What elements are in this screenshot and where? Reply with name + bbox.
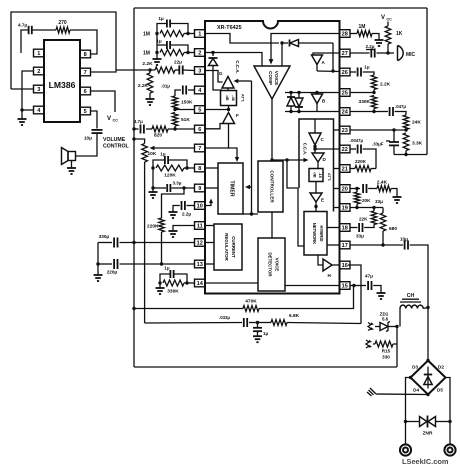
svg-text:D2: D2: [438, 365, 444, 370]
svg-text:COMP: COMP: [268, 71, 273, 85]
svg-text:15: 15: [342, 284, 348, 290]
wire pin14 internal: [205, 282, 258, 284]
svg-text:CURRENT: CURRENT: [231, 236, 236, 258]
svg-text:V: V: [107, 115, 112, 122]
wire pin17 internal: [327, 244, 340, 246]
capacitor 1u (pin1): [157, 16, 188, 34]
pin 14 (XR): [195, 279, 206, 287]
diode CR2 (internal): [209, 58, 223, 90]
pin 18 (XR): [340, 224, 351, 232]
op-amp D: [312, 153, 327, 162]
wire pin5 to coupling cap: [90, 111, 97, 129]
svg-text:MIC: MIC: [406, 52, 416, 58]
svg-text:24: 24: [342, 110, 349, 116]
svg-text:XR-T6425: XR-T6425: [217, 25, 242, 31]
wire pin15 row: [350, 284, 366, 287]
label D3: [412, 365, 418, 370]
svg-text:.0047μ: .0047μ: [350, 138, 363, 143]
op-amp B: [312, 91, 327, 112]
pin 20 (XR): [340, 185, 351, 193]
svg-text:5: 5: [84, 109, 87, 115]
wire cca to amp D: [270, 158, 308, 162]
pin 6 (LM386): [80, 87, 91, 95]
power Vcc (mic): [381, 15, 392, 26]
svg-text:5.6: 5.6: [382, 317, 389, 322]
svg-text:1μ: 1μ: [160, 152, 165, 157]
svg-text:VOICE: VOICE: [274, 258, 279, 272]
pin 15 (XR): [340, 282, 351, 290]
pin 13 (XR): [195, 260, 206, 268]
resistor 2.2K (shunt): [138, 68, 153, 93]
svg-text:220K: 220K: [355, 159, 367, 164]
ground (det filter): [253, 331, 262, 342]
resistor 20K: [354, 189, 371, 208]
capacitor 1u (det filter): [253, 323, 268, 337]
svg-text:1: 1: [37, 51, 40, 57]
svg-text:DETECTOR: DETECTOR: [267, 252, 272, 277]
svg-text:TIMER: TIMER: [229, 180, 235, 196]
pin 7 (XR): [195, 144, 206, 152]
wire detector to pin15: [285, 285, 340, 287]
pin 2 (XR): [195, 49, 206, 57]
wire pin25: [350, 91, 376, 94]
pin 7 (LM386): [80, 68, 91, 76]
capacitor 22u: [174, 60, 194, 75]
svg-text:33μ: 33μ: [356, 234, 364, 239]
block TIMER: [218, 163, 243, 214]
svg-text:10μ: 10μ: [400, 237, 408, 242]
wire pin13 internal: [205, 263, 214, 265]
svg-text:HYBRID: HYBRID: [319, 225, 324, 241]
svg-text:25: 25: [342, 91, 348, 97]
pin 6 (XR): [195, 125, 206, 133]
op-amp H: [318, 255, 340, 278]
pin 28 (XR): [340, 30, 351, 38]
capacitor 330u: [98, 234, 195, 248]
resistor 220K: [147, 188, 184, 264]
wire bridge left leg: [404, 378, 411, 445]
svg-text:12: 12: [197, 241, 203, 247]
svg-text:ATT.: ATT.: [241, 94, 246, 102]
svg-text:H: H: [328, 273, 332, 278]
wire bridge right leg: [446, 378, 452, 445]
svg-text:2.2K: 2.2K: [142, 61, 153, 67]
block CURRENT REGULATOR: [214, 224, 242, 270]
pin 11 (XR): [195, 222, 206, 230]
capacitor 1u (pin8): [153, 152, 187, 169]
svg-text:11: 11: [197, 224, 203, 230]
resistor 820: [152, 126, 195, 139]
diode CR1 (internal): [280, 40, 333, 47]
svg-text:2.2μ: 2.2μ: [366, 44, 375, 49]
svg-text:1: 1: [198, 32, 201, 38]
svg-text:-46: -46: [231, 95, 236, 102]
wire 270 to pin8: [70, 30, 97, 54]
wire diode to pin26 net: [331, 43, 334, 73]
svg-text:3.3K: 3.3K: [412, 141, 423, 147]
svg-text:51K: 51K: [181, 117, 190, 123]
wire pin11 stub: [173, 226, 195, 230]
box CCA attenuator chain: [299, 119, 334, 212]
wire volume row: [116, 69, 155, 71]
svg-text:6.8K: 6.8K: [289, 313, 300, 319]
svg-text:28: 28: [342, 32, 348, 38]
wire AGC rail: [250, 81, 253, 216]
wire pin23 internal: [334, 129, 340, 131]
diode pair (compander): [285, 91, 340, 113]
resistor 680: [380, 208, 397, 246]
block VOICE DETECTOR: [258, 238, 285, 291]
resistor 2.2K (pin26): [371, 75, 390, 93]
label VOLUME CONTROL: [103, 137, 129, 150]
wire pin6 internal: [205, 124, 223, 129]
svg-text:R15: R15: [382, 349, 391, 354]
wire pin1 internal: [205, 34, 279, 44]
svg-text:LM386: LM386: [49, 80, 76, 90]
svg-text:120K: 120K: [164, 173, 176, 179]
ground (speaker): [67, 166, 76, 174]
svg-text:2.2K: 2.2K: [138, 83, 149, 89]
wire branch to hybrid: [287, 160, 304, 246]
svg-text:19: 19: [342, 206, 348, 212]
wire voice comp out: [271, 99, 273, 161]
pin 5 (XR): [195, 106, 206, 114]
svg-text:D4: D4: [413, 388, 419, 393]
pin 9 (XR): [195, 184, 206, 192]
wire pin24: [350, 110, 376, 113]
pin 8 (LM386): [80, 50, 91, 58]
wire pin27 to amp A: [313, 53, 340, 55]
resistor 1M (pin28): [350, 24, 379, 40]
wire 330u-220u common: [97, 243, 99, 265]
label D5: [437, 388, 443, 393]
wire 3.3K bottom row: [394, 153, 427, 156]
pin 8 (XR): [195, 164, 206, 172]
wire att to E: [315, 182, 317, 194]
svg-text:CONTROL: CONTROL: [103, 144, 129, 150]
wire pin21 internal: [334, 168, 340, 170]
resistor 3.3K: [403, 133, 422, 155]
svg-text:.01μ: .01μ: [161, 84, 170, 89]
capacitor .33u (pin18): [350, 223, 365, 239]
pin 4 (LM386): [34, 106, 45, 114]
svg-text:2.2μ: 2.2μ: [182, 212, 191, 217]
wire pin10 arrow: [205, 199, 213, 206]
resistor 330K (pin25): [359, 96, 377, 112]
svg-text:2: 2: [37, 69, 40, 75]
wire pin7 internal: [205, 148, 239, 162]
ground (2.4K): [393, 196, 402, 203]
pin 22 (XR): [340, 145, 351, 153]
pin 16 (XR): [340, 261, 351, 269]
wire pin2 to voice comp: [213, 53, 262, 67]
wire arrester rail: [396, 327, 398, 368]
capacitor .33u (pin20): [363, 184, 383, 204]
svg-text:1μ: 1μ: [364, 65, 369, 70]
wire pin19 internal: [334, 207, 340, 209]
attenuator ATT -46dB: [221, 88, 246, 106]
wire 150K junction to pin5: [173, 108, 194, 111]
wire pin20 row: [350, 187, 360, 190]
svg-text:ZNR: ZNR: [423, 431, 433, 437]
ground (LM386 pins 2/4): [18, 110, 27, 125]
terminal T2: [444, 444, 455, 455]
pin 23 (XR): [340, 126, 351, 134]
svg-text:A: A: [322, 60, 326, 65]
surge arrow (R15): [366, 340, 372, 348]
svg-text:5: 5: [198, 108, 201, 114]
ground (pin10): [169, 210, 178, 218]
pin 10 (XR): [195, 202, 206, 210]
svg-text:680: 680: [389, 226, 397, 232]
svg-text:3: 3: [37, 87, 40, 93]
capacitor 10u (line): [400, 237, 428, 308]
capacitor .01u (pin4): [161, 84, 194, 97]
wire line rail: [134, 366, 397, 368]
ground (electrolytics): [94, 264, 103, 281]
wire pin6 to Vcc: [90, 91, 115, 112]
wire pin2 to ground rail: [22, 71, 34, 110]
surge arrow (ZD1): [368, 322, 374, 330]
capacitor 4.7u (volume): [132, 119, 152, 134]
wire .033u row: [145, 322, 242, 325]
capacitor 1u (pin14): [160, 266, 187, 284]
svg-text:23: 23: [342, 128, 348, 134]
wire pin12 internal: [205, 242, 214, 244]
wire 120K common down: [152, 168, 154, 188]
svg-text:26: 26: [342, 70, 348, 76]
pin 5 (LM386): [80, 107, 91, 115]
svg-text:V: V: [381, 15, 385, 21]
label D2: [438, 365, 444, 370]
resistor 6.8K: [258, 313, 362, 326]
wire C out: [313, 145, 316, 153]
svg-text:47μ: 47μ: [365, 274, 373, 279]
wire pin19 row: [350, 206, 383, 209]
svg-text:2: 2: [198, 51, 201, 57]
svg-text:7: 7: [84, 70, 87, 76]
ground (pin14 net): [156, 283, 165, 294]
label C.C.A. (D): [303, 143, 308, 156]
svg-text:1M: 1M: [143, 32, 150, 38]
pin 21 (XR): [340, 165, 351, 173]
pin 3 (XR): [195, 67, 206, 75]
resistor 470K: [243, 299, 259, 312]
svg-text:E: E: [321, 198, 324, 203]
wire 470K to pin15: [259, 286, 354, 309]
svg-text:1K: 1K: [396, 31, 403, 37]
svg-text:33μ: 33μ: [375, 199, 383, 204]
pin 24 (XR): [340, 108, 351, 116]
label D4: [413, 388, 419, 393]
resistor 330K (pin14): [158, 280, 194, 295]
wire timer input arrow: [243, 185, 258, 214]
svg-text:18: 18: [342, 226, 348, 232]
pin 2 (LM386): [34, 67, 45, 75]
block HYBRID NETWORK: [304, 212, 327, 256]
wire pin17 row: [350, 243, 403, 246]
wire pin28 to voice comp: [269, 34, 340, 65]
op-amp E: [310, 193, 324, 203]
resistor 270: [56, 20, 70, 33]
pin 3 (LM386): [34, 85, 45, 93]
svg-text:8: 8: [84, 52, 87, 58]
attenuator ATT -18dB: [309, 162, 332, 182]
svg-text:LSeekIC.com: LSeekIC.com: [402, 457, 449, 466]
capacitor .0047u: [350, 138, 376, 169]
wire pin2 internal: [205, 51, 215, 56]
svg-text:22μ: 22μ: [174, 60, 182, 65]
capacitor 1u (pin2): [156, 39, 188, 53]
svg-text:D: D: [323, 157, 327, 162]
wire pin20 internal: [334, 188, 340, 190]
speaker LS1: [62, 148, 76, 167]
wire pin8 internal: [205, 167, 218, 169]
svg-text:330: 330: [382, 355, 390, 360]
capacitor 2.2u (mic): [350, 44, 390, 58]
pin 25 (XR): [340, 89, 351, 97]
svg-text:4.7μ: 4.7μ: [18, 23, 27, 28]
svg-text:VOLUME: VOLUME: [103, 137, 126, 143]
svg-text:3.3μ: 3.3μ: [173, 181, 182, 186]
wire outer right rail: [426, 8, 428, 155]
wire 470K row: [132, 307, 243, 310]
svg-text:24K: 24K: [412, 120, 421, 126]
svg-text:330μ: 330μ: [99, 234, 110, 239]
wire pin23 row: [350, 128, 408, 131]
svg-text:330K: 330K: [167, 289, 179, 295]
resistor 150K: [172, 96, 193, 109]
inductor CH choke: [400, 293, 428, 327]
wire pot bottom rail: [144, 162, 146, 323]
svg-text:14: 14: [197, 281, 204, 287]
capacitor 2.2u (pin10): [173, 201, 195, 217]
resistor 24K: [403, 115, 421, 130]
svg-text:220K: 220K: [147, 224, 159, 230]
pin 17 (XR): [340, 241, 351, 249]
svg-text:1μ: 1μ: [158, 16, 164, 21]
svg-text:16: 16: [342, 263, 348, 269]
potentiometer 10K (volume): [132, 137, 194, 162]
power Vcc (LM386): [107, 115, 118, 123]
svg-text:.047μ: .047μ: [395, 104, 406, 109]
wire LM386 top feedback loop: [11, 12, 116, 89]
svg-text:7: 7: [198, 146, 201, 152]
svg-text:CC: CC: [113, 119, 119, 123]
ground (pin9 net): [149, 188, 158, 198]
wire outer left rail: [133, 8, 135, 367]
svg-text:C: C: [321, 137, 325, 142]
svg-text:22: 22: [342, 147, 348, 153]
resistor 22K: [359, 208, 377, 228]
resistor 1K: [385, 26, 403, 53]
svg-text:2.2K: 2.2K: [380, 82, 391, 88]
svg-text:150K: 150K: [181, 100, 193, 106]
capacitor 10u (speaker coupling): [76, 130, 103, 156]
resistor 1M (pin2): [143, 50, 195, 57]
wire pin4 to ground: [20, 108, 33, 111]
wire pin7 to junction: [90, 70, 116, 72]
capacitor 3.3u (pin9): [151, 181, 194, 193]
ground (1M pin28): [375, 40, 384, 46]
svg-text:C.C.A.: C.C.A.: [303, 143, 308, 156]
capacitor 4.7u (LM386 feedback): [18, 23, 56, 54]
wire pin11 internal: [205, 225, 214, 227]
capacitor 220u: [96, 259, 194, 275]
wire E to hybrid: [314, 202, 317, 212]
op-amp C: [309, 119, 325, 145]
svg-text:270: 270: [58, 20, 67, 26]
svg-text:.033μ: .033μ: [219, 315, 230, 320]
arrow C.C.A. (G): [234, 60, 252, 83]
svg-text:20: 20: [342, 187, 348, 193]
svg-text:CONTROLLER: CONTROLLER: [270, 170, 275, 203]
pin 4 (XR): [195, 86, 206, 94]
wire choke to bridge: [426, 306, 429, 361]
watermark: [402, 457, 449, 466]
svg-text:.33μF: .33μF: [372, 142, 384, 147]
pin 12 (XR): [195, 239, 206, 247]
svg-text:9: 9: [198, 186, 201, 192]
svg-text:10μ: 10μ: [84, 136, 92, 141]
resistor 1M (pin1): [143, 31, 195, 38]
svg-text:CH: CH: [407, 293, 415, 299]
svg-text:820: 820: [154, 133, 162, 139]
op-amp U2 LM386 body: [44, 40, 80, 122]
svg-text:D3: D3: [412, 365, 418, 370]
svg-text:8: 8: [198, 166, 201, 172]
wire pin16 loop: [348, 265, 361, 324]
svg-text:F: F: [236, 113, 239, 118]
svg-text:330K: 330K: [359, 99, 371, 105]
pin 1 (LM386): [34, 49, 45, 57]
svg-text:1M: 1M: [143, 51, 150, 57]
svg-text:21: 21: [342, 167, 348, 173]
chassis ground (line): [367, 388, 428, 396]
svg-text:B: B: [322, 99, 326, 104]
capacitor 47u: [365, 274, 381, 292]
pin 1 (XR): [195, 30, 206, 38]
wire ATT to pin5: [205, 106, 230, 112]
svg-text:1μ: 1μ: [263, 331, 268, 336]
IC U1 XR-T6425 body: [205, 21, 340, 294]
svg-text:1μ: 1μ: [164, 266, 169, 271]
svg-text:REGULATOR: REGULATOR: [224, 233, 229, 261]
svg-text:C.C.A.: C.C.A.: [235, 60, 240, 73]
ground (2.2K shunt): [146, 93, 155, 105]
svg-text:1M: 1M: [359, 24, 366, 30]
resistor 2.2K (series): [142, 61, 175, 73]
svg-text:ATT.: ATT.: [327, 173, 332, 181]
svg-text:NETWORK: NETWORK: [312, 223, 317, 245]
svg-text:22K: 22K: [359, 217, 368, 222]
svg-text:2.4K: 2.4K: [377, 180, 388, 186]
svg-text:20K: 20K: [362, 198, 371, 203]
wire pin9 internal: [205, 187, 218, 189]
svg-text:27: 27: [342, 51, 348, 57]
capacitor 1u (pin26): [350, 65, 374, 77]
wire pin22 internal: [313, 147, 339, 150]
resistor 51K: [172, 113, 190, 130]
svg-text:6: 6: [84, 89, 87, 95]
svg-text:dB: dB: [225, 95, 230, 100]
block CONTROLLER: [258, 161, 283, 212]
svg-text:6: 6: [198, 127, 201, 133]
wire pin18 internal: [327, 227, 340, 229]
pin 19 (XR): [340, 204, 351, 212]
capacitor .047u: [374, 104, 406, 116]
svg-text:G: G: [219, 71, 223, 76]
